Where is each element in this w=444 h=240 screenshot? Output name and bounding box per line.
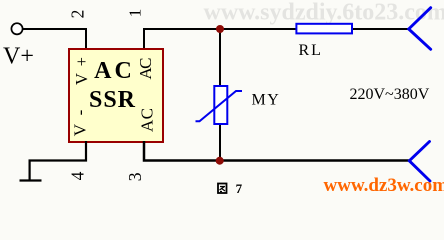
- connector fork top: [409, 8, 431, 50]
- svg-text:V+: V+: [3, 44, 34, 70]
- varistor MY body: [214, 86, 227, 124]
- svg-text:www.dz3w.com: www.dz3w.com: [324, 175, 444, 195]
- terminal bar bottom left: [20, 179, 42, 181]
- junction dot bottom node: [216, 157, 224, 165]
- wire pin 1 up and right to top rail: [144, 29, 297, 49]
- caption 图 7 : hanzi drawn as svg: [218, 184, 227, 194]
- svg-text:AC: AC: [138, 108, 157, 132]
- wire pin 3 down to bottom rail: [144, 141, 409, 161]
- svg-text:MY: MY: [252, 92, 281, 109]
- terminal V+ circle: [11, 23, 22, 34]
- varistor MY diagonal stroke: [196, 91, 243, 121]
- svg-text:SSR: SSR: [89, 87, 136, 113]
- wire from V+ terminal to pin 2: [23, 29, 86, 49]
- svg-text:1: 1: [126, 9, 145, 18]
- svg-text:2: 2: [68, 10, 88, 19]
- svg-text:3: 3: [125, 172, 145, 181]
- svg-text:AC: AC: [94, 58, 135, 84]
- svg-text:www.sydzdiy.6to23.com: www.sydzdiy.6to23.com: [204, 0, 444, 26]
- junction dot top node: [216, 25, 224, 33]
- wire vertical junction column through varistor: [219, 29, 221, 161]
- resistor RL: [296, 24, 352, 34]
- wire pin 4 to left terminal stub: [30, 141, 86, 180]
- connector fork bottom: [409, 142, 430, 182]
- svg-text:7: 7: [236, 181, 243, 195]
- svg-text:4: 4: [68, 171, 88, 180]
- SSR module box U1: [69, 49, 163, 142]
- wire RL right side to top fork: [352, 28, 409, 30]
- svg-text:RL: RL: [299, 42, 323, 59]
- svg-text:220V~380V: 220V~380V: [350, 86, 430, 103]
- svg-text:AC: AC: [136, 58, 155, 80]
